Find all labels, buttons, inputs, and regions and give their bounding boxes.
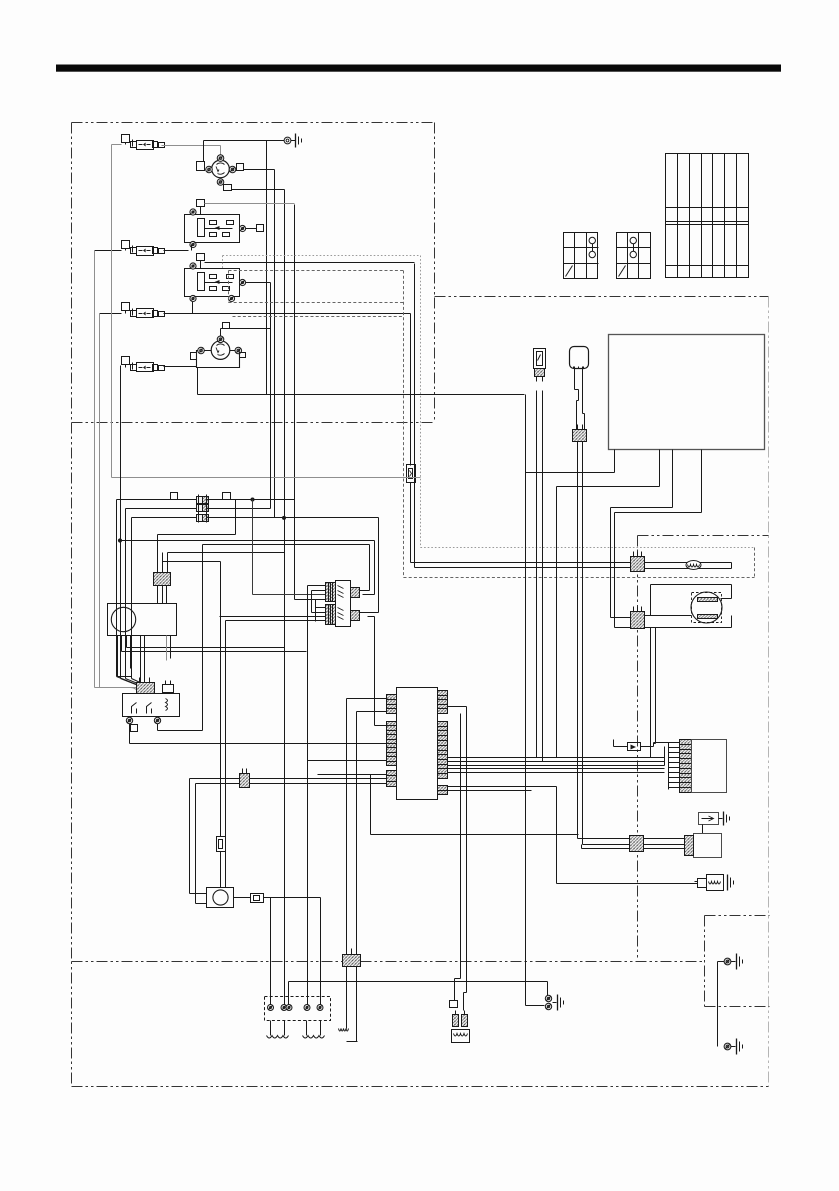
border left — [71, 123, 73, 1087]
harness outer dotted — [223, 256, 755, 548]
fuse F1 — [122, 135, 165, 150]
heater circuit — [645, 563, 732, 569]
module flasher — [694, 834, 722, 858]
wire R1 right stub — [246, 225, 264, 232]
wire row2 right — [207, 395, 271, 509]
wire coil down1 — [271, 1021, 285, 1036]
wire sw v314 — [295, 600, 316, 622]
pickup pins — [453, 1011, 468, 1027]
wire v541 — [542, 391, 544, 762]
wire v293 gray top — [294, 205, 296, 600]
wire CDI stub5 — [140, 636, 142, 683]
coil small — [339, 1029, 357, 1042]
motor M2 bracket — [197, 351, 240, 368]
border top — [72, 122, 435, 124]
wire jbox out double1 — [448, 786, 557, 788]
wire v536 — [536, 391, 538, 758]
headlight bulb — [691, 592, 722, 623]
connector M1 bottom — [224, 185, 285, 191]
connector M2 topstub — [221, 323, 230, 337]
bolt R2 top — [190, 263, 196, 269]
wire CDI gray drop — [166, 636, 168, 661]
wire diode link — [654, 743, 669, 747]
frame line bottom — [72, 961, 705, 963]
wire flasher in1 — [578, 838, 630, 840]
wire battery cable1 — [220, 852, 222, 888]
wire sw right3 — [360, 518, 379, 613]
battery box — [705, 916, 770, 1007]
wire sw right2 — [363, 541, 375, 595]
wire F1 left gray — [112, 145, 122, 478]
wire F4 right — [164, 366, 197, 368]
wire row3 right — [207, 517, 285, 519]
wire row1 left — [117, 500, 197, 685]
bolt R1 right — [239, 225, 245, 231]
wire S2 right — [583, 367, 585, 431]
connector table large — [666, 154, 749, 278]
square R3 — [131, 725, 138, 732]
wire CDI stub7 — [170, 636, 172, 659]
bolt R3 mid — [154, 717, 160, 723]
wire jbox L776 — [318, 774, 387, 776]
starter motor — [207, 888, 234, 908]
wire pickup2 — [464, 993, 467, 1011]
wire M2 bottom-left — [197, 368, 199, 395]
jbox conn R3 — [438, 786, 448, 795]
ignition switch — [212, 160, 230, 178]
ground mid — [553, 995, 564, 1011]
frame line mid-right — [638, 535, 769, 537]
connector M1 left — [197, 141, 205, 171]
bolt M1 right — [229, 166, 236, 173]
harness inner dashed 2 — [233, 316, 404, 318]
bolt M2 top — [217, 336, 224, 343]
wire sw1 — [308, 586, 326, 595]
wire jbox L698 — [347, 699, 387, 1029]
switch body — [336, 581, 351, 627]
connector M2 right — [240, 353, 246, 358]
wire jbox hook — [448, 707, 467, 993]
wire gray v94 — [94, 251, 96, 688]
wire v526 tail — [526, 1005, 545, 1007]
wire starter left1 — [190, 893, 207, 895]
wire battery cable2 — [225, 621, 227, 888]
wire F1 to ground — [204, 140, 285, 142]
wire F3 left — [100, 313, 122, 315]
wire sw6 — [220, 616, 326, 618]
switch contacts — [338, 586, 344, 620]
bolt ground mid2 — [545, 1003, 551, 1009]
bolt R1 bottom — [190, 241, 196, 247]
jbox conn L3 — [387, 771, 397, 787]
wire CDI out3 — [126, 636, 128, 648]
wire battery link — [718, 962, 725, 1047]
connector headlight — [631, 607, 645, 629]
wire ECU p1 — [526, 450, 615, 473]
connector row1 — [197, 495, 209, 505]
bolt battery2 — [724, 1043, 731, 1050]
wire sw2 — [312, 591, 326, 613]
sensor S1 — [534, 349, 546, 369]
wire R2 bolt drop — [192, 302, 194, 314]
coil primary 1 — [267, 1036, 289, 1039]
wire F1 gray — [162, 146, 221, 156]
wire jbox loop1 — [190, 779, 387, 894]
coil box — [265, 997, 331, 1021]
wire S2 down1 — [577, 442, 579, 839]
bolt coil1 — [268, 1005, 274, 1011]
wire ignition primary 1 — [122, 651, 307, 653]
wire row3 left — [132, 518, 197, 686]
wire R2 right — [246, 283, 271, 395]
wire jbox loop2 — [196, 784, 387, 904]
square row1 right — [223, 493, 231, 500]
wire coil feed — [264, 898, 321, 1008]
wire CDI stub6 — [144, 636, 146, 683]
fuse F2 — [122, 241, 165, 256]
heater element — [686, 561, 701, 570]
horn — [707, 875, 724, 891]
bolt M1 left — [206, 166, 213, 173]
border inner right upper — [434, 123, 436, 423]
wire sw right4 — [368, 617, 387, 726]
border bottom — [72, 1086, 770, 1088]
ground G1 — [284, 134, 301, 148]
wire coil down2 — [307, 1021, 321, 1036]
module fuse block — [680, 740, 727, 793]
wire h561 — [163, 553, 221, 569]
wire bundle5 — [448, 772, 665, 774]
border right — [768, 297, 770, 1087]
jbox conn L1 — [387, 695, 397, 714]
sensor S2 — [570, 347, 589, 369]
wire h552 — [168, 553, 285, 569]
connector R2 top — [197, 254, 205, 269]
bolt M2 right — [235, 347, 242, 354]
wire CDI stub4 — [130, 636, 132, 669]
wire v220 battery — [220, 562, 222, 837]
connector S2 — [573, 425, 587, 442]
connector starter — [251, 894, 264, 903]
wire gray h477 — [112, 477, 421, 479]
wire headlight bottom — [615, 616, 732, 628]
ground battery2 — [731, 1039, 743, 1055]
wire v283 — [284, 190, 286, 1008]
title bar — [56, 65, 781, 72]
wire sw3 — [316, 599, 326, 601]
wire v556 low — [556, 787, 558, 884]
connector table 1 — [564, 233, 599, 279]
connector flasher — [630, 836, 694, 856]
wire v265 — [266, 141, 268, 395]
wire horn — [557, 883, 698, 885]
wire sw5 — [312, 612, 326, 614]
jbox conn L2 — [387, 722, 397, 766]
wire v274 — [274, 170, 276, 518]
connector M2 left — [191, 353, 197, 360]
wire ECU p2 — [557, 450, 660, 487]
wire M2 top — [230, 328, 271, 330]
pickup coil — [452, 1030, 470, 1043]
connector table 2 — [617, 233, 651, 279]
frame line mid-left — [72, 422, 435, 424]
wire S2 down2 — [582, 442, 584, 845]
wire ECU p3 — [611, 450, 673, 618]
CDI unit — [108, 604, 177, 636]
wire sw right1 — [360, 545, 370, 591]
bolt coil3 — [304, 1005, 310, 1011]
wire R3 mid down — [158, 724, 203, 731]
bolt battery1 — [724, 958, 731, 965]
wire tail h834 — [371, 775, 579, 835]
module diode box — [699, 813, 719, 825]
wire R3 left down — [129, 724, 131, 744]
connector CDI relay — [154, 567, 171, 604]
wire h204 gray — [205, 203, 295, 205]
wire jbox out double2 — [448, 790, 532, 792]
wire gray h593 — [253, 594, 326, 596]
wire sw4 — [316, 607, 326, 609]
harness mid dashed — [229, 271, 755, 578]
wire bundle2 — [448, 761, 665, 763]
wire headlight down1 — [650, 628, 652, 758]
connector row2 — [197, 504, 209, 514]
bolt R2 bottom — [190, 295, 235, 301]
connector M1 right — [237, 164, 244, 171]
wire heater feed 2 — [415, 567, 631, 569]
wire row2 left — [126, 509, 197, 686]
connector neutral — [343, 949, 361, 967]
wire v556 — [556, 487, 558, 758]
wire R2 top — [205, 262, 415, 264]
wire v356 tail — [347, 1041, 358, 1043]
wire jbox L711 — [357, 712, 387, 1042]
wire headlight top — [611, 616, 692, 618]
wire headlight down2 — [654, 628, 656, 744]
connector R3 right — [163, 681, 174, 694]
starter relay R3 — [123, 694, 180, 717]
wire M1 right — [244, 169, 275, 171]
junction box — [397, 688, 438, 800]
bolt coil4 — [317, 1005, 323, 1011]
connector heater — [631, 552, 645, 572]
wire v525 — [525, 395, 527, 1006]
switch conn upper — [326, 583, 336, 602]
fuse F4 — [122, 357, 165, 372]
switch conn right lower — [351, 611, 360, 621]
relay R2 — [185, 269, 240, 297]
connector loop — [240, 769, 250, 788]
bolt R3 left — [126, 717, 132, 723]
bolt ground mid1 — [545, 995, 551, 1001]
wire h517 — [283, 516, 379, 519]
connector horn — [695, 879, 707, 888]
relay R1 — [185, 215, 240, 243]
wire v410 — [410, 314, 412, 466]
wire gray to relay — [95, 688, 139, 694]
wire S2 left — [575, 367, 579, 431]
bolt M2 left — [198, 347, 205, 354]
wire bundle4 — [448, 768, 665, 770]
wire h981 — [289, 982, 548, 1005]
harness inner dashed 1 — [229, 271, 404, 303]
bolt coil2 — [281, 1005, 292, 1011]
wire battery feed — [130, 743, 387, 745]
wire module feed — [669, 743, 680, 790]
wire v410 lower — [410, 483, 412, 563]
fuse F5 — [407, 465, 416, 483]
wire starter left2 — [196, 903, 207, 905]
wire jbox right v459 — [460, 714, 462, 979]
wire F3 right — [164, 313, 411, 315]
bolt R2 right — [239, 279, 245, 285]
bolt M1 top — [217, 155, 224, 162]
border upper horizontal — [435, 296, 769, 298]
wire sw7 — [226, 621, 326, 888]
wire ignition primary 2 — [127, 647, 285, 649]
wire gray v99 — [99, 314, 101, 688]
wire heater feed 1 — [411, 562, 631, 564]
wire diode down — [702, 825, 704, 834]
ground horn — [728, 875, 734, 891]
coil primary 2 — [303, 1036, 325, 1039]
wire v252b — [252, 500, 254, 595]
wire R2 branch — [414, 264, 416, 568]
main fuse — [217, 837, 226, 852]
fuse F3 — [122, 303, 165, 318]
wire jbox h760 — [308, 760, 387, 762]
wire v307 — [307, 586, 309, 1008]
wire ECU p4 — [615, 450, 702, 628]
wire bundle3 — [448, 747, 665, 766]
wire jbox L743 — [386, 743, 388, 745]
connector row3 — [197, 513, 209, 523]
wire bundle1 — [448, 757, 665, 759]
switch conn lower — [326, 605, 336, 625]
wire starter right — [234, 897, 251, 899]
connector R3 pins — [137, 678, 155, 694]
connector R1 top — [197, 200, 205, 215]
wire trunk h394 — [198, 394, 525, 396]
wire h544 — [203, 545, 370, 731]
diode D1 — [614, 740, 654, 751]
bolt R1 top — [190, 209, 196, 215]
motor M2 — [211, 341, 230, 360]
wire h540 — [118, 366, 374, 686]
ground battery1 — [731, 954, 743, 970]
sensor S1 pins — [535, 369, 545, 382]
square pickup — [450, 1001, 458, 1008]
jbox conn R2 — [438, 722, 448, 779]
wire F2 left — [95, 245, 192, 251]
frame vertical mid-right — [637, 536, 639, 961]
jbox conn R1 — [438, 691, 448, 714]
wire pickup1 — [455, 979, 461, 1001]
square row1 left — [171, 493, 178, 500]
wire h534 — [158, 535, 236, 569]
wire row1 right — [207, 498, 295, 535]
ground diode — [719, 812, 730, 826]
wire CDI out1 — [118, 636, 132, 677]
wire flasher in2 — [583, 844, 630, 846]
wire flasher in3 — [582, 845, 630, 849]
switch conn right upper — [351, 588, 360, 598]
wire CDI out2 — [121, 636, 123, 652]
bolt M1 bottom — [217, 179, 224, 186]
wire headlight frame — [651, 585, 732, 616]
ECU — [609, 335, 765, 450]
